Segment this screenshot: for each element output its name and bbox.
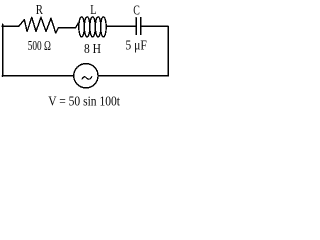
- svg-text:C: C: [133, 3, 140, 18]
- svg-text:L: L: [90, 3, 96, 18]
- svg-text:8 H: 8 H: [84, 42, 101, 57]
- svg-text:500 Ω: 500 Ω: [28, 39, 51, 54]
- svg-text:R: R: [36, 3, 44, 18]
- svg-text:V = 50 sin 100t: V = 50 sin 100t: [48, 95, 120, 110]
- svg-text:5 μF: 5 μF: [125, 39, 147, 54]
